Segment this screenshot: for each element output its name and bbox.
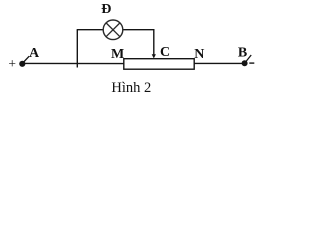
terminal B oblique tail <box>246 55 252 62</box>
svg-text:Hình 2: Hình 2 <box>111 80 151 96</box>
svg-text:M: M <box>111 47 124 62</box>
rheostat MN box <box>124 59 194 69</box>
minus sign at B <box>249 62 254 64</box>
lamp X cross <box>106 23 120 37</box>
terminal A oblique tail <box>23 56 29 62</box>
svg-text:Đ: Đ <box>101 2 111 17</box>
wiper arrowhead onto rheostat <box>152 54 156 58</box>
terminal B dot <box>242 60 248 66</box>
svg-text:N: N <box>194 47 204 62</box>
wire wiper vertical C <box>153 29 155 56</box>
svg-text:+: + <box>8 56 16 71</box>
lamp D circle <box>103 20 123 40</box>
svg-text:B: B <box>238 45 247 60</box>
wire lamp-branch left vertical <box>76 30 78 68</box>
wire main right segment N to B <box>194 62 242 64</box>
wire main left segment A to M <box>25 62 124 64</box>
svg-text:A: A <box>29 46 40 61</box>
terminal A dot <box>19 61 25 67</box>
wire lamp-branch top horizontal <box>77 29 154 31</box>
svg-text:C: C <box>160 45 170 60</box>
